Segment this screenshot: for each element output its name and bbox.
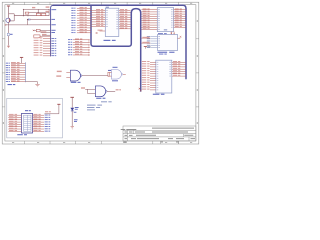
IC U1 left pins [91, 9, 105, 11]
NAND gate U5A [70, 70, 80, 81]
net labels right of column [51, 8, 56, 11]
IC U2 left pins from arch [141, 9, 157, 11]
wire power stem to Q1 [8, 6, 10, 18]
frame row ticks left [2, 38, 5, 40]
wire from arch to U3 row 1 [141, 37, 150, 39]
label under corner [46, 11, 50, 12]
U5A input pins [66, 72, 70, 74]
sheet frame outer border [2, 2, 199, 144]
NAND gate U5B [95, 86, 105, 97]
title block vertical dividers [126, 130, 128, 141]
label on cathode wire [74, 119, 78, 120]
label U5B part number [96, 98, 101, 99]
sheet frame inner border [5, 5, 196, 141]
label R3 value [46, 6, 50, 7]
power flag above LED [70, 96, 74, 98]
power flag V1 top-left [7, 5, 10, 7]
junction dots oscillator [23, 15, 24, 16]
IC U1 extra left pin [100, 30, 106, 32]
connector J2 outer body [22, 113, 33, 133]
IC U2 pin numbers [158, 8, 160, 11]
power flag inside J2 box [57, 103, 60, 105]
net ladder wires to U1 via bus riser [71, 7, 73, 10]
title block text row 1 [121, 128, 126, 131]
title block text row 3 [125, 134, 128, 137]
IC U4 body [156, 60, 172, 93]
wire U5C output [123, 73, 126, 75]
label U1 part number [104, 40, 111, 41]
connector J1 pins [11, 62, 25, 64]
wire U5B output [107, 90, 115, 92]
label J2 part number [17, 134, 23, 135]
wire base link vertical [13, 14, 15, 21]
capacitor C1 at base [28, 19, 30, 21]
net label above U5A output port [108, 70, 111, 71]
wire row y30.4 with resistor R5 [34, 29, 37, 31]
net ladder L1 rows [34, 37, 39, 38]
frame row ticks right [196, 38, 199, 40]
port flag at U5A output [108, 72, 110, 76]
wire loop left riser [22, 9, 24, 15]
bus riser x91 to bottom rail [91, 6, 131, 46]
bus U-arch between U1 and U2 [131, 9, 140, 91]
IC U1 body [105, 8, 119, 36]
power flag above J1 [20, 56, 23, 58]
wire U5A output [82, 75, 108, 77]
wire loop mid branch [37, 9, 39, 12]
title block outline [123, 126, 196, 141]
label R2 value [32, 7, 35, 8]
resistor R3 [42, 13, 46, 15]
resistor R2 [36, 13, 40, 15]
title block text row 4 [125, 137, 128, 140]
IC U3 body [158, 35, 178, 51]
net label at U5B output [116, 89, 119, 90]
IC U1 reference label [106, 7, 109, 8]
wire branch y13.8 [9, 13, 15, 15]
title block text row 2 [125, 131, 128, 134]
net ladder L1 header box [34, 35, 40, 38]
label below LED [74, 111, 77, 114]
U5A input labels [57, 71, 62, 72]
IC U4 pin numbers [157, 61, 159, 64]
connector J2 key rungs [24, 116, 31, 118]
connector J2 inner body [24, 115, 31, 131]
wire row y35.2 [42, 34, 51, 36]
IC U2 body [157, 8, 173, 32]
label J1 [8, 84, 12, 85]
IC U1 right pins [119, 9, 131, 11]
wire loop right riser [48, 9, 50, 15]
label above U5C [113, 67, 118, 68]
wire oscillator loop top [23, 8, 49, 10]
print date text below title block [123, 142, 127, 143]
wire from arch to U3 row 2 [141, 42, 150, 44]
resistor R1 small box [25, 12, 29, 14]
connector J2 mid bar [26, 115, 28, 131]
wire long rail y24.9 to column [6, 24, 51, 26]
bus drop to net label column [51, 5, 54, 56]
comment text block [101, 101, 107, 102]
connector J2 left pins [8, 114, 21, 116]
capacitor C2 below rail [8, 25, 10, 33]
wire LED cathode [71, 111, 73, 126]
wire power to J2 pin rail [45, 113, 59, 115]
IC U4 right pins to bus [172, 61, 186, 63]
connector J1 spine [25, 62, 27, 82]
NAND gate U5C (light) [112, 70, 122, 80]
IC U2 bottom stubs with no-connects [170, 32, 172, 35]
wire C1 to column [30, 19, 51, 21]
power flag small near U3 [144, 46, 147, 48]
IC U4 left pins [150, 61, 156, 63]
label D1 [75, 107, 79, 108]
wire loop bottom [14, 15, 49, 17]
no-connect X below U1 [96, 32, 98, 34]
no-connect marks at arch leg end [139, 88, 141, 90]
frame margin index labels [12, 2, 14, 5]
IC U3 pin numbers [158, 35, 160, 38]
transistor Q1 [6, 18, 10, 22]
wire J1 ground run [25, 81, 37, 83]
wire LED anode [71, 97, 73, 108]
label below U5C [112, 80, 118, 81]
IC U2 right pins to bus [174, 9, 186, 11]
no-connect X at rail left end [5, 24, 6, 25]
ground below LED [71, 126, 75, 128]
annotation box around J2 section [7, 98, 63, 138]
title block horizontal dividers [123, 129, 196, 131]
ground below J1 [35, 83, 39, 85]
frame column ticks top [23, 2, 25, 4]
U5C input stubs [110, 72, 112, 74]
wire row y32.6 [41, 32, 51, 34]
net ladder B rows [68, 38, 70, 41]
U5B input label [81, 87, 85, 88]
label U4 part number [153, 94, 160, 95]
label J2 [25, 110, 28, 111]
label U3 part number [158, 52, 168, 53]
LED D1 [70, 108, 74, 111]
no-connect X at U3 top right [180, 36, 182, 38]
IC U3 left pins [151, 36, 158, 38]
wire C1 junction down to rail [27, 20, 29, 25]
connector J2 right pins [33, 114, 45, 116]
wire U5B inputs tied [85, 88, 95, 90]
ground arrow below C2 [7, 46, 10, 48]
label C2 value [10, 34, 13, 35]
frame column ticks bottom [23, 141, 25, 144]
wire emitter to rail [8, 22, 10, 25]
label U2 part number [158, 33, 163, 34]
IC U2 internal text [164, 29, 167, 30]
IC U1 pin numbers [106, 9, 108, 12]
label U5A part number [71, 82, 77, 83]
bus top rail [53, 5, 186, 78]
